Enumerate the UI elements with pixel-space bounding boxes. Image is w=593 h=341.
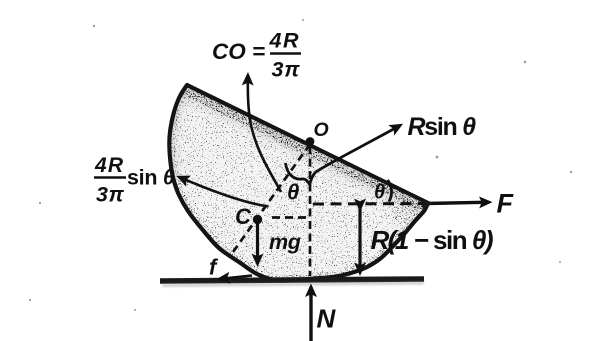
svg-text:4R: 4R bbox=[94, 154, 124, 177]
svg-text:mg: mg bbox=[269, 230, 301, 254]
svg-text:F: F bbox=[497, 189, 515, 219]
svg-text:R(1 − sin θ): R(1 − sin θ) bbox=[371, 225, 493, 255]
svg-text:3π: 3π bbox=[272, 58, 301, 82]
svg-text:O: O bbox=[314, 119, 329, 141]
svg-text:N: N bbox=[317, 304, 337, 334]
svg-text:θ: θ bbox=[374, 182, 385, 204]
svg-text:4R: 4R bbox=[269, 29, 300, 53]
svg-text:θ: θ bbox=[287, 180, 299, 205]
svg-text:CO =: CO = bbox=[212, 39, 265, 64]
svg-text:Rsin θ: Rsin θ bbox=[408, 113, 477, 141]
svg-text:sin θ: sin θ bbox=[127, 166, 175, 190]
svg-text:3π: 3π bbox=[96, 183, 125, 207]
svg-text:C: C bbox=[235, 204, 252, 229]
